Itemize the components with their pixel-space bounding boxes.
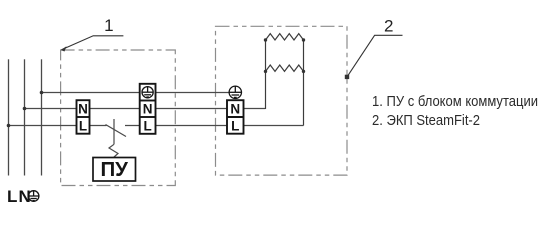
junction dot R top-left [264, 38, 267, 41]
bus line PE (vertical) [41, 59, 43, 175]
svg-text:1. ПУ с блоком коммутации: 1. ПУ с блоком коммутации [372, 93, 538, 110]
actuator zigzag link [109, 144, 118, 157]
junction dot L bus [7, 124, 11, 128]
junction dot R bottom-left [264, 70, 267, 73]
junction dot R top-right [302, 38, 305, 41]
leader line for label 2 [347, 35, 403, 77]
leader dot 2 [345, 75, 349, 79]
svg-text:L: L [231, 118, 239, 133]
wire vertical left of heaters [265, 40, 267, 109]
svg-text:1: 1 [104, 16, 113, 35]
svg-text:N: N [143, 102, 153, 117]
PE symbol above TB3 [229, 86, 241, 98]
heater resistor R1 (top zigzag) [266, 34, 304, 40]
svg-text:N: N [230, 102, 240, 117]
svg-text:L: L [143, 118, 151, 133]
junction dot N bus [23, 107, 27, 111]
bus line L (vertical) [8, 59, 10, 175]
terminal block TB1 (N/L) [77, 100, 90, 134]
svg-text:ПУ: ПУ [100, 158, 128, 181]
leader arrow 1 [61, 46, 67, 51]
leader line for label 1 [62, 36, 124, 50]
wire L horizontal left of switch [9, 125, 107, 127]
svg-text:L: L [79, 118, 87, 133]
terminal block TB2 (PE/N/L) [140, 84, 156, 134]
wire PE horizontal [42, 92, 230, 94]
switch blade [106, 125, 127, 137]
terminal block TB3 (box2, N/L) [227, 100, 244, 134]
PE symbol in TB2 top cell [142, 87, 153, 98]
PU box [93, 158, 136, 182]
switch actuator vertical [113, 119, 115, 144]
bus line N (vertical) [24, 59, 26, 175]
svg-text:2: 2 [384, 16, 393, 35]
wire N horizontal [25, 108, 266, 110]
heater resistor R2 (bottom zigzag) [266, 65, 304, 71]
wire vertical right of heaters [303, 40, 305, 126]
svg-text:L: L [7, 187, 17, 206]
svg-text:N: N [78, 102, 88, 117]
svg-text:2. ЭКП SteamFit-2: 2. ЭКП SteamFit-2 [372, 112, 480, 129]
junction dot R bottom-right [302, 70, 305, 73]
PE symbol (bottom) [28, 191, 39, 202]
wire L horizontal right of switch [125, 125, 304, 127]
junction dot PE bus [40, 91, 44, 95]
enclosure box 2 (dash-dot outline, EKP SteamFit-2) [216, 26, 348, 175]
enclosure box 1 (dash-dot outline, PU with switching block) [61, 50, 176, 186]
